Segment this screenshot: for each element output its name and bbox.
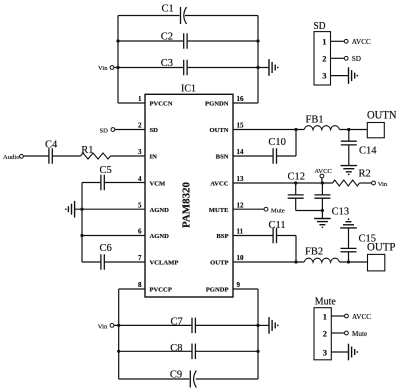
svg-text:C9: C9 xyxy=(170,370,182,381)
svg-text:C3: C3 xyxy=(161,58,173,69)
svg-text:6: 6 xyxy=(138,228,142,236)
svg-text:Audio: Audio xyxy=(3,154,20,161)
svg-text:MUTE: MUTE xyxy=(209,207,229,214)
svg-text:16: 16 xyxy=(237,95,245,103)
svg-text:VCM: VCM xyxy=(150,181,167,188)
svg-text:15: 15 xyxy=(237,122,245,130)
svg-text:AVCC: AVCC xyxy=(352,38,371,46)
svg-text:C14: C14 xyxy=(359,146,377,157)
svg-text:SD: SD xyxy=(352,55,361,63)
svg-text:1: 1 xyxy=(322,36,326,46)
svg-text:BSN: BSN xyxy=(216,154,229,161)
svg-text:3: 3 xyxy=(138,148,142,156)
svg-text:BSP: BSP xyxy=(216,233,228,240)
svg-text:PGNDP: PGNDP xyxy=(206,287,229,294)
svg-text:SD: SD xyxy=(314,20,326,32)
svg-text:C15: C15 xyxy=(359,234,377,245)
svg-text:11: 11 xyxy=(237,228,244,236)
svg-text:IC1: IC1 xyxy=(181,83,196,94)
svg-text:SD: SD xyxy=(150,127,159,134)
svg-text:1: 1 xyxy=(323,311,327,321)
svg-text:PVCCN: PVCCN xyxy=(150,101,173,108)
svg-text:10: 10 xyxy=(237,254,245,262)
svg-text:PGNDN: PGNDN xyxy=(205,101,229,108)
svg-text:3: 3 xyxy=(322,70,326,80)
svg-text:C5: C5 xyxy=(100,165,112,176)
svg-text:IN: IN xyxy=(150,154,158,161)
svg-text:AGND: AGND xyxy=(150,233,170,240)
svg-text:R2: R2 xyxy=(359,169,371,180)
svg-text:C1: C1 xyxy=(162,3,174,14)
svg-text:14: 14 xyxy=(237,148,245,156)
svg-text:Mute: Mute xyxy=(315,296,336,308)
svg-text:2: 2 xyxy=(323,328,327,338)
svg-text:Vin: Vin xyxy=(98,323,108,330)
svg-text:AVCC: AVCC xyxy=(314,168,332,175)
svg-text:AGND: AGND xyxy=(150,207,170,214)
svg-text:OUTN: OUTN xyxy=(209,127,228,134)
svg-text:2: 2 xyxy=(322,53,326,63)
svg-text:8: 8 xyxy=(138,281,142,289)
svg-text:3: 3 xyxy=(323,347,327,357)
svg-text:C13: C13 xyxy=(332,207,350,218)
svg-text:OUTP: OUTP xyxy=(210,260,228,267)
svg-text:Mute: Mute xyxy=(352,330,367,338)
svg-text:PAM8320: PAM8320 xyxy=(181,182,193,228)
svg-text:R1: R1 xyxy=(81,145,93,156)
svg-text:12: 12 xyxy=(237,201,245,209)
svg-text:C12: C12 xyxy=(288,172,306,183)
svg-text:C11: C11 xyxy=(269,220,286,231)
svg-text:Mute: Mute xyxy=(271,207,285,214)
svg-text:SD: SD xyxy=(100,128,109,135)
svg-text:AVCC: AVCC xyxy=(210,181,228,188)
svg-text:Vin: Vin xyxy=(98,65,108,72)
svg-text:PVCCP: PVCCP xyxy=(150,287,172,294)
svg-text:7: 7 xyxy=(138,254,142,262)
svg-text:C4: C4 xyxy=(45,140,58,151)
svg-text:9: 9 xyxy=(237,281,241,289)
svg-text:OUTN: OUTN xyxy=(367,110,397,122)
svg-text:C10: C10 xyxy=(268,137,286,148)
svg-text:5: 5 xyxy=(138,201,142,209)
svg-text:13: 13 xyxy=(237,175,245,183)
svg-text:FB2: FB2 xyxy=(305,247,323,258)
svg-text:C8: C8 xyxy=(170,343,182,354)
svg-text:2: 2 xyxy=(138,122,142,130)
svg-text:Vin: Vin xyxy=(378,181,388,188)
svg-text:VCLAMP: VCLAMP xyxy=(150,260,179,267)
svg-text:AVCC: AVCC xyxy=(352,313,371,321)
svg-text:C7: C7 xyxy=(171,317,183,328)
svg-text:C2: C2 xyxy=(161,31,173,42)
svg-text:FB1: FB1 xyxy=(306,115,324,126)
svg-text:C6: C6 xyxy=(100,243,112,254)
svg-text:1: 1 xyxy=(138,95,142,103)
